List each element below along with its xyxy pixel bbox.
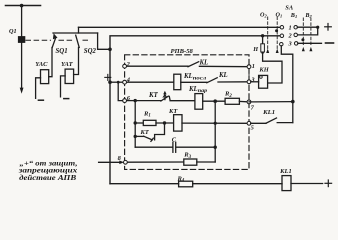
wire C row right xyxy=(176,146,215,148)
wire L1 to SA contact 1 xyxy=(79,26,281,28)
contact SQ2 xyxy=(76,35,80,47)
wire H to KH xyxy=(263,55,282,83)
wire C row left xyxy=(135,146,172,148)
coil YAT xyxy=(65,69,74,83)
wire to lamp H xyxy=(262,36,264,44)
position column B1 dashed xyxy=(302,18,304,46)
node cross right vertical xyxy=(214,122,217,125)
wire mechanical link dashed xyxy=(26,39,88,41)
label minus YAC xyxy=(38,99,43,101)
contact KT nc xyxy=(135,135,143,137)
node right vertical top xyxy=(213,99,217,103)
node SA contact 1 left xyxy=(280,26,284,30)
wire YAT to minus xyxy=(61,76,66,97)
node position dot B1 xyxy=(301,38,304,41)
terminal 4 xyxy=(123,80,127,84)
arrow column B1 xyxy=(302,47,305,51)
node bridge corner xyxy=(316,26,319,29)
svg-text:R4: R4 xyxy=(177,175,185,183)
svg-text:1: 1 xyxy=(289,24,292,31)
arrow column O1 xyxy=(276,49,279,53)
arrow column B2 xyxy=(309,47,312,51)
wire SA row 1 to plus xyxy=(297,26,317,28)
wire YAC to minus xyxy=(36,78,41,99)
node main junction xyxy=(108,48,112,52)
node terminal 7 junction xyxy=(291,100,295,104)
contact KL row 4 xyxy=(207,78,217,83)
node R1 row left xyxy=(134,121,137,124)
contact KL row 2 xyxy=(188,62,199,67)
node SA contact 2 right xyxy=(294,33,298,37)
svg-text:KL: KL xyxy=(218,72,228,79)
node bus to terminal 4 xyxy=(108,80,112,84)
contact KL1 xyxy=(266,118,277,123)
wire to R1 xyxy=(135,122,143,124)
wire SQ bus corner down xyxy=(98,33,110,49)
svg-text:8: 8 xyxy=(118,155,122,162)
wire row to terminal 1 xyxy=(199,65,249,67)
svg-text:1: 1 xyxy=(252,63,255,70)
resistor H xyxy=(261,44,265,52)
svg-text:КТ: КТ xyxy=(148,92,159,99)
wire SQ1 to YAC xyxy=(49,48,52,77)
svg-text:7: 7 xyxy=(251,105,255,112)
wire terminal 1 to 3 stub xyxy=(248,68,250,80)
wire SA row 3 xyxy=(298,42,322,44)
svg-text:R3: R3 xyxy=(183,152,191,160)
wire R1 to KT coil xyxy=(156,122,174,124)
svg-text:КТ: КТ xyxy=(168,108,178,115)
wire SQ2 to YAT xyxy=(74,47,79,74)
svg-text:KLпосл: KLпосл xyxy=(183,73,207,81)
contact SQ1 xyxy=(52,37,56,47)
svg-text:действие АПВ: действие АПВ xyxy=(19,175,77,182)
wire terminal 7 external xyxy=(249,101,293,103)
svg-text:3: 3 xyxy=(288,41,293,48)
svg-text:SA: SA xyxy=(285,4,293,11)
svg-text:Q1: Q1 xyxy=(9,28,17,35)
wire coil to contact xyxy=(181,81,207,83)
wire node line left vertical xyxy=(134,101,136,148)
wire terminal 4 to coil xyxy=(125,81,174,83)
wire tap to terminal 6 xyxy=(118,82,123,100)
svg-text:„+“ от защит,: „+“ от защит, xyxy=(20,160,78,167)
svg-text:С: С xyxy=(172,137,177,144)
svg-text:РПВ-58: РПВ-58 xyxy=(171,48,194,55)
svg-text:КН: КН xyxy=(258,67,269,74)
wire to coil KLpar xyxy=(170,100,195,102)
terminal 6 xyxy=(123,99,127,103)
label plus terminal 4 xyxy=(105,74,111,80)
box RPV-58 dashed xyxy=(125,55,249,170)
wire R3 to node vertical xyxy=(197,161,215,163)
node lamp tap on L2 xyxy=(261,34,264,37)
node junction on bus xyxy=(20,4,24,8)
wire SA row3 down path xyxy=(281,46,293,123)
terminal 5 xyxy=(247,121,251,125)
svg-text:KL1: KL1 xyxy=(262,109,275,116)
wire SQ2 top stub xyxy=(78,27,80,33)
wire bridge rows 1-2 xyxy=(297,27,317,35)
wire terminal 8 to R3 xyxy=(125,161,183,163)
position column O1 dashed xyxy=(276,17,278,53)
svg-text:4: 4 xyxy=(126,77,130,84)
wire coil to node xyxy=(203,100,225,102)
label minus YAT xyxy=(64,98,69,100)
svg-text:5: 5 xyxy=(251,124,255,131)
svg-text:В1: В1 xyxy=(290,12,297,19)
arrow feeder down xyxy=(20,88,24,94)
node tap to terminal 6 xyxy=(117,81,120,84)
wire main plus bus vertical xyxy=(109,49,111,183)
coil YAC xyxy=(41,70,49,84)
wire R2 to terminal 7 xyxy=(239,100,249,103)
svg-text:О1: О1 xyxy=(276,12,283,19)
svg-text:R2: R2 xyxy=(224,91,232,99)
node R1-KT junction xyxy=(163,121,166,124)
resistor R4 xyxy=(179,181,193,187)
wire SQ fixed bus xyxy=(53,32,98,34)
svg-text:KL: KL xyxy=(199,60,209,67)
arrow column O2 xyxy=(266,49,269,53)
node SA contact 1 right xyxy=(294,25,298,29)
terminal 2 xyxy=(123,64,127,68)
wire terminal 5 external xyxy=(251,122,266,124)
wire to terminal 3 xyxy=(218,81,249,83)
label plus SA xyxy=(325,24,332,31)
wire bus to terminal 4 xyxy=(110,81,123,83)
coil KL parallel xyxy=(195,94,203,110)
wire node line right vertical xyxy=(214,101,216,162)
breaker Q1 xyxy=(18,36,25,43)
label plus bottom xyxy=(325,180,332,187)
arrow into terminal 8 xyxy=(119,161,124,165)
wire KL1 to vertical xyxy=(277,122,293,124)
node KT nc row xyxy=(134,135,137,138)
svg-text:R1: R1 xyxy=(143,110,151,118)
node C row right xyxy=(214,146,217,149)
wire L2 to SA contact 2 xyxy=(110,36,280,50)
wire bottom row xyxy=(110,183,179,185)
svg-text:YAT: YAT xyxy=(61,61,74,68)
coil KL1 xyxy=(282,176,291,191)
position column O2 dashed xyxy=(267,17,269,53)
svg-text:3: 3 xyxy=(250,77,255,84)
label minus SA xyxy=(326,42,334,44)
resistor R2 xyxy=(225,98,239,104)
node SA contact 3 left xyxy=(280,42,284,46)
terminal 3 xyxy=(247,80,251,84)
wire to KT contact xyxy=(135,100,161,102)
terminal 8 xyxy=(124,160,128,164)
terminal 1 xyxy=(247,65,251,69)
coil KT xyxy=(174,115,182,131)
node position dot O1 xyxy=(275,29,278,32)
position column B2 dashed xyxy=(310,18,312,46)
node SA contact 3 right xyxy=(294,42,298,46)
svg-text:KLпар: KLпар xyxy=(188,86,208,94)
terminal 7 xyxy=(247,100,251,104)
node vertical tap xyxy=(134,99,137,102)
resistor R3 xyxy=(184,159,197,165)
svg-text:2: 2 xyxy=(288,33,293,40)
wire KT coil to terminal 5 xyxy=(182,122,249,124)
wire row terminal 2 left xyxy=(125,65,188,67)
contact KT slip with arrow xyxy=(161,96,168,101)
svg-text:YAC: YAC xyxy=(35,61,48,68)
svg-text:О2: О2 xyxy=(260,12,267,19)
coil KL series xyxy=(174,74,181,90)
wire external plus to terminal 8 xyxy=(99,161,121,163)
svg-text:КТ: КТ xyxy=(140,129,150,136)
capacitor C xyxy=(172,142,174,152)
wire terminal 3 to KH xyxy=(251,81,259,83)
relay KH xyxy=(259,75,268,88)
svg-text:KL1: KL1 xyxy=(279,168,292,175)
svg-text:SQ1: SQ1 xyxy=(56,48,68,55)
arrow below H xyxy=(261,52,264,56)
svg-text:SQ2: SQ2 xyxy=(84,48,97,55)
resistor R1 xyxy=(143,120,156,125)
svg-text:запрещающих: запрещающих xyxy=(17,167,78,174)
wire Q1 feeder vertical xyxy=(21,6,23,89)
node SA contact 2 left xyxy=(280,34,284,38)
wire top-left bus xyxy=(6,5,41,7)
svg-text:Н: Н xyxy=(252,46,258,53)
wire terminal 6 right xyxy=(125,100,136,102)
wire KT nc bridge to R1 node xyxy=(155,123,165,140)
